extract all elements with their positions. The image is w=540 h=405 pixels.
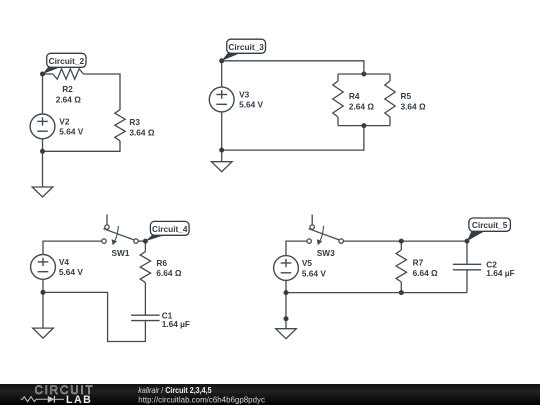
- svg-text:5.64 V: 5.64 V: [59, 267, 83, 277]
- svg-text:3.64 Ω: 3.64 Ω: [129, 128, 154, 138]
- svg-text:http://circuitlab.com/c6h4b6gp: http://circuitlab.com/c6h4b6gp8pdyc: [138, 395, 265, 404]
- svg-text:SW3: SW3: [317, 248, 335, 258]
- svg-text:Circuit_2: Circuit_2: [49, 56, 85, 66]
- svg-text:Circuit_3: Circuit_3: [228, 42, 264, 52]
- svg-text:R5: R5: [401, 91, 412, 101]
- svg-text:1.64 µF: 1.64 µF: [162, 319, 190, 329]
- svg-text:5.64 V: 5.64 V: [239, 100, 263, 110]
- svg-text:R6: R6: [156, 258, 167, 268]
- svg-text:5.64 V: 5.64 V: [59, 127, 83, 137]
- svg-text:5.64 V: 5.64 V: [302, 268, 326, 278]
- svg-text:3.64 Ω: 3.64 Ω: [401, 101, 426, 111]
- svg-text:R7: R7: [413, 258, 424, 268]
- svg-text:2.64 Ω: 2.64 Ω: [56, 94, 81, 104]
- svg-text:R4: R4: [349, 91, 360, 101]
- svg-text:V3: V3: [239, 89, 250, 99]
- svg-text:R3: R3: [129, 117, 140, 127]
- svg-text:6.64 Ω: 6.64 Ω: [413, 268, 438, 278]
- svg-text:6.64 Ω: 6.64 Ω: [156, 268, 181, 278]
- svg-text:R2: R2: [62, 84, 73, 94]
- svg-text:Circuit_4: Circuit_4: [152, 224, 188, 234]
- svg-text:LAB: LAB: [66, 394, 92, 405]
- svg-text:V2: V2: [59, 116, 70, 126]
- svg-text:Circuit_5: Circuit_5: [472, 220, 508, 230]
- svg-text:2.64 Ω: 2.64 Ω: [349, 101, 374, 111]
- svg-text:1.64 µF: 1.64 µF: [486, 268, 514, 278]
- svg-text:V5: V5: [302, 258, 313, 268]
- svg-text:V4: V4: [59, 257, 70, 267]
- svg-text:SW1: SW1: [112, 248, 130, 258]
- svg-text:kalirair / Circuit 2,3,4,5: kalirair / Circuit 2,3,4,5: [138, 385, 212, 395]
